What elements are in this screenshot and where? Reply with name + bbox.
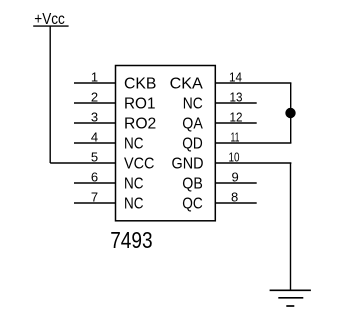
wire pin 2 bbox=[74, 102, 116, 104]
wire pin 12 bbox=[215, 122, 256, 124]
svg-text:CKA: CKA bbox=[170, 76, 204, 93]
svg-text:3: 3 bbox=[91, 110, 98, 125]
power +Vcc rail bar bbox=[33, 25, 68, 27]
svg-text:NC: NC bbox=[183, 96, 203, 113]
svg-text:NC: NC bbox=[124, 176, 144, 193]
wire Vcc vertical bbox=[49, 26, 51, 163]
svg-text:10: 10 bbox=[229, 150, 240, 165]
svg-text:VCC: VCC bbox=[124, 156, 154, 173]
svg-text:13: 13 bbox=[230, 90, 243, 105]
svg-text:NC: NC bbox=[124, 196, 144, 213]
svg-text:RO2: RO2 bbox=[124, 116, 156, 133]
svg-text:8: 8 bbox=[231, 190, 238, 205]
svg-text:1: 1 bbox=[91, 70, 98, 85]
wire pin 7 bbox=[74, 202, 116, 204]
IC U1 7493 body bbox=[116, 66, 216, 221]
svg-text:5: 5 bbox=[91, 150, 98, 165]
wire pin 3 bbox=[74, 122, 116, 124]
svg-text:QC: QC bbox=[182, 196, 203, 213]
wire pin 9 bbox=[215, 182, 256, 184]
wire pin10 to ground bbox=[290, 163, 292, 290]
wire pin 14 bbox=[215, 82, 291, 84]
svg-text:QA: QA bbox=[182, 116, 203, 133]
ground symbol bbox=[270, 290, 311, 306]
svg-text:RO1: RO1 bbox=[124, 96, 156, 113]
svg-text:12: 12 bbox=[230, 110, 243, 125]
svg-text:4: 4 bbox=[91, 130, 98, 145]
svg-text:6: 6 bbox=[91, 170, 98, 185]
wire pin 13 bbox=[215, 102, 256, 104]
svg-text:11: 11 bbox=[231, 130, 240, 145]
svg-text:9: 9 bbox=[232, 170, 239, 185]
wire pin 10 bbox=[215, 162, 291, 164]
wire pin 6 bbox=[74, 182, 116, 184]
svg-text:GND: GND bbox=[172, 156, 204, 173]
svg-text:7493: 7493 bbox=[110, 227, 152, 253]
svg-text:NC: NC bbox=[124, 136, 144, 153]
svg-text:CKB: CKB bbox=[124, 76, 156, 93]
svg-text:14: 14 bbox=[229, 70, 242, 85]
svg-text:7: 7 bbox=[91, 190, 98, 205]
svg-text:2: 2 bbox=[91, 90, 98, 105]
wire Vcc to pin 5 bbox=[50, 162, 115, 164]
wire pin 4 bbox=[74, 142, 116, 144]
wire vertical pin14 to pin11 bbox=[290, 83, 292, 143]
wire pin 8 bbox=[215, 202, 256, 204]
svg-text:QD: QD bbox=[182, 136, 203, 153]
junction dot bbox=[285, 108, 295, 118]
svg-text:QB: QB bbox=[182, 176, 203, 193]
wire pin 1 bbox=[74, 82, 116, 84]
wire pin 11 bbox=[215, 142, 291, 144]
